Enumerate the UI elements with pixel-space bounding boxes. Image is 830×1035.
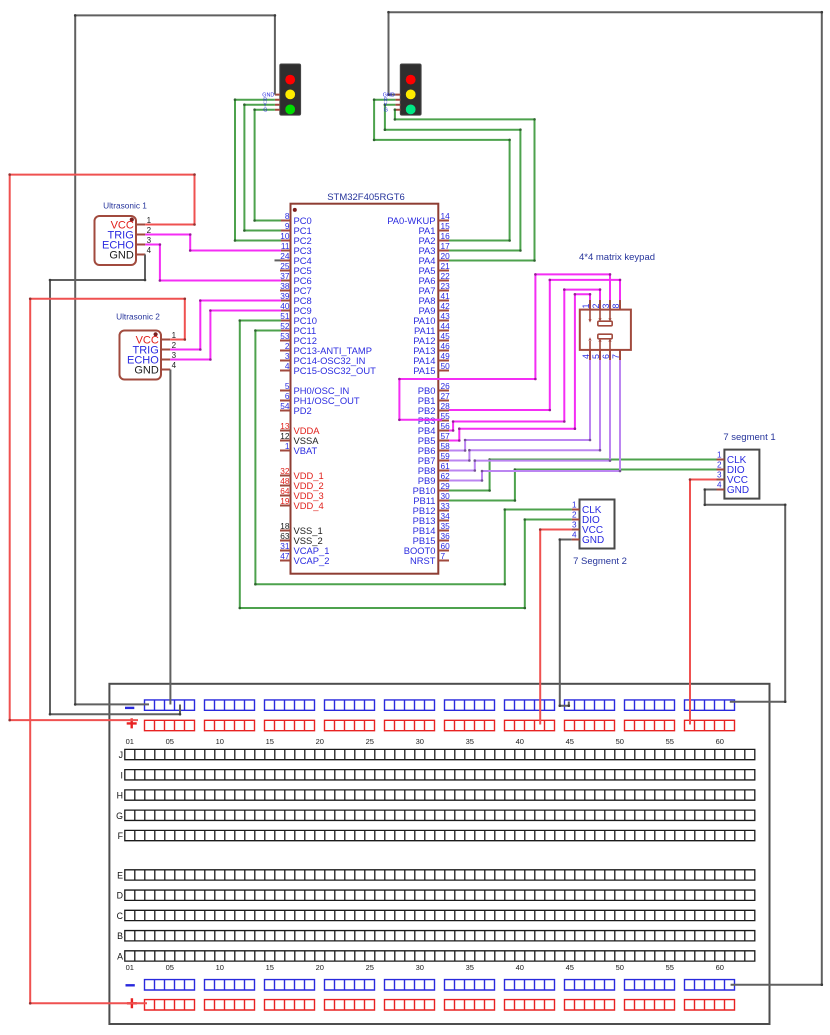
U3 pin 41 PA8: [418, 291, 450, 306]
svg-text:10: 10: [280, 231, 290, 241]
svg-text:GND: GND: [582, 535, 604, 546]
U3 pin 45 PA12: [413, 331, 450, 346]
ultrasonic U1 pin 2 TRIG: [108, 226, 152, 241]
ultrasonic U1 pin 1 VCC: [111, 216, 152, 231]
wire keypad pin6 to U3 PB8: [449, 360, 611, 472]
svg-text:19: 19: [280, 496, 290, 506]
breadboard top blue power rail: [145, 700, 735, 710]
U3 pin 7 NRST: [410, 551, 449, 566]
U3 pin 53 PC12: [280, 331, 317, 346]
7seg S1 pin 4 GND: [717, 481, 750, 496]
wire U2 TRIG to U3 PC8: [170, 299, 281, 351]
7seg S1 pin 1 CLK: [717, 451, 747, 466]
svg-text:44: 44: [441, 321, 451, 331]
svg-text:64: 64: [280, 486, 290, 496]
svg-text:57: 57: [441, 431, 451, 441]
svg-text:PD2: PD2: [294, 405, 312, 416]
svg-text:50: 50: [616, 737, 624, 746]
svg-text:18: 18: [280, 521, 290, 531]
U3 pin 10 PC2: [280, 231, 312, 246]
U3 pin 20 PA4: [418, 251, 450, 266]
U3 pin 23 PA7: [418, 281, 450, 296]
svg-text:45: 45: [566, 737, 574, 746]
svg-text:25: 25: [366, 963, 374, 972]
breadboard top minus symbol: [125, 707, 134, 709]
wire keypad pin4 to U3 PB6: [449, 360, 591, 452]
svg-text:1: 1: [717, 451, 722, 460]
svg-text:E: E: [117, 870, 123, 880]
svg-text:40: 40: [280, 301, 290, 311]
svg-text:6: 6: [285, 391, 290, 401]
svg-text:14: 14: [441, 211, 451, 221]
U3 pin 17 PA3: [418, 241, 450, 256]
U3 pin 54 PD2: [280, 401, 312, 416]
wire U1 ECHO to U3 PC6: [145, 243, 281, 282]
U3 pin 27 PB1: [418, 391, 450, 406]
svg-text:G: G: [116, 811, 123, 821]
svg-text:VCAP_2: VCAP_2: [294, 555, 330, 566]
U3 pin 24 PC4: [280, 251, 312, 266]
svg-text:H: H: [117, 791, 123, 801]
wire U3 PC11 to S2 CLK: [254, 329, 572, 585]
svg-text:GND: GND: [727, 485, 749, 496]
svg-text:15: 15: [266, 963, 274, 972]
7seg S1 pin 2 DIO: [717, 461, 745, 476]
U3 pin 42 PA9: [418, 301, 450, 316]
U3 pin 51 PC10: [280, 311, 317, 326]
svg-text:4: 4: [172, 361, 177, 370]
svg-text:27: 27: [441, 391, 451, 401]
svg-text:PA15: PA15: [413, 365, 435, 376]
svg-text:20: 20: [316, 737, 324, 746]
U3 pin 32 VDD_1: [280, 466, 324, 481]
svg-text:9: 9: [285, 221, 290, 231]
U3 pin 26 PB0: [418, 381, 450, 396]
U3 pin 50 PA15: [413, 361, 450, 376]
svg-text:2: 2: [717, 461, 722, 470]
svg-text:B: B: [117, 931, 123, 941]
wire U2 VCC to bottom red rail: [29, 298, 186, 1005]
ultrasonic sensor U1 body: [95, 216, 137, 265]
svg-text:F: F: [118, 831, 124, 841]
svg-text:49: 49: [441, 351, 451, 361]
wire S2 GND to top blue rail: [559, 538, 572, 707]
U3 pin 3 PC14-OSC32_IN: [280, 351, 365, 366]
wire keypad pin7 to U3 PB9: [449, 360, 621, 482]
breadboard top plus symbol: [127, 718, 137, 728]
svg-text:58: 58: [441, 441, 451, 451]
svg-text:11: 11: [281, 241, 290, 251]
svg-text:46: 46: [441, 341, 451, 351]
7 segment display S2 body: [580, 500, 615, 549]
svg-text:7: 7: [441, 551, 446, 561]
svg-text:35: 35: [441, 521, 451, 531]
wire TL2 GND to bottom blue rail: [387, 11, 823, 986]
svg-text:2: 2: [572, 511, 577, 520]
U3 pin 64 VDD_3: [280, 486, 324, 501]
wire U1 VCC to top red rail: [8, 173, 195, 721]
svg-text:32: 32: [280, 466, 290, 476]
svg-text:52: 52: [280, 321, 290, 331]
svg-text:C: C: [117, 911, 124, 921]
U3 pin 43 PA10: [413, 311, 450, 326]
U3 pin 35 PB14: [413, 521, 451, 536]
wire keypad pin5 to U3 PB7: [449, 360, 601, 462]
wire TL2 R to U3 PA2: [373, 98, 511, 241]
svg-text:40: 40: [516, 963, 524, 972]
svg-text:42: 42: [441, 301, 451, 311]
svg-text:7 Segment 2: 7 Segment 2: [573, 556, 627, 567]
svg-text:34: 34: [441, 511, 451, 521]
wire keypad pin2 to U3 PB4: [449, 288, 601, 432]
U3 pin 25 PC5: [280, 261, 312, 276]
svg-text:Ultrasonic 1: Ultrasonic 1: [103, 201, 147, 211]
svg-text:51: 51: [280, 311, 290, 321]
wire TL1 R to U3 PC2: [234, 98, 281, 241]
7seg S2 pin 1 CLK: [572, 501, 602, 516]
svg-text:36: 36: [441, 531, 451, 541]
svg-text:23: 23: [441, 281, 451, 291]
svg-text:6: 6: [601, 354, 611, 359]
U3 pin 37 PC6: [280, 271, 312, 286]
svg-text:48: 48: [280, 476, 290, 486]
svg-text:30: 30: [441, 491, 451, 501]
svg-text:25: 25: [280, 261, 290, 271]
wire stub at U3 PC4: [275, 259, 281, 261]
U3 pin 19 VDD_4: [280, 496, 324, 511]
svg-text:VBAT: VBAT: [294, 445, 318, 456]
ultrasonic sensor U2 body: [120, 331, 162, 380]
svg-text:STM32F405RGT6: STM32F405RGT6: [327, 192, 405, 203]
svg-text:3: 3: [717, 471, 722, 480]
svg-text:45: 45: [566, 963, 574, 972]
svg-text:35: 35: [466, 737, 474, 746]
ultrasonic U1 pin 4 GND: [109, 246, 151, 261]
U3 pin 16 PA2: [418, 231, 450, 246]
breadboard body: [109, 684, 769, 1024]
U3 pin 15 PA1: [418, 221, 450, 236]
traffic light TL2 pin labels overlay: [383, 93, 395, 114]
keypad bottom pins 4 5 6 7: [581, 350, 621, 361]
U3 pin 44 PA11: [414, 321, 450, 336]
breadboard bottom blue power rail: [145, 980, 735, 990]
U3 pin 55 PB3: [418, 411, 450, 426]
U3 pin 48 VDD_2: [280, 476, 324, 491]
svg-text:GND: GND: [109, 249, 134, 261]
traffic light TL1 pin labels overlay: [262, 93, 274, 114]
svg-text:20: 20: [316, 963, 324, 972]
breadboard row H: [117, 790, 755, 801]
U3 pin 39 PC8: [280, 291, 312, 306]
U3 pin 40 PC9: [280, 301, 312, 316]
U3 pin 14 PA0-WKUP: [387, 211, 450, 226]
breadboard row G: [116, 810, 755, 821]
wire TL1 G to U3 PC0: [253, 108, 281, 221]
svg-text:2: 2: [285, 341, 290, 351]
svg-text:33: 33: [441, 501, 451, 511]
U3 pin 8 PC0: [280, 211, 312, 226]
breadboard bottom minus symbol: [126, 984, 135, 986]
svg-text:D: D: [117, 891, 123, 901]
breadboard row F: [118, 830, 755, 841]
wire TL1 GND to top blue rail: [74, 14, 276, 706]
breadboard bottom plus symbol: [127, 998, 137, 1008]
svg-text:22: 22: [441, 271, 451, 281]
wire keypad pin1 to U3 PB5: [449, 293, 591, 442]
svg-text:I: I: [121, 770, 123, 780]
svg-text:Ultrasonic 2: Ultrasonic 2: [116, 311, 160, 321]
svg-text:10: 10: [216, 963, 224, 972]
U3 pin 29 PB10: [413, 481, 451, 496]
svg-text:40: 40: [516, 737, 524, 746]
7seg S2 pin 3 VCC: [572, 521, 604, 536]
svg-text:05: 05: [166, 737, 174, 746]
svg-text:63: 63: [280, 531, 290, 541]
wire TL2 G to U3 PA4: [394, 108, 536, 261]
U3 pin 6 PH1/OSC_OUT: [280, 391, 360, 406]
svg-text:55: 55: [666, 963, 674, 972]
wire U2 ECHO to U3 PC9: [170, 309, 281, 361]
breadboard bottom red power rail: [145, 1000, 735, 1010]
U3 pin 2 PC13-ANTI_TAMP: [280, 341, 372, 356]
keypad internal switch symbols: [590, 311, 612, 350]
U3 pin 31 VCAP_1: [280, 541, 329, 556]
traffic light TL1 pins (GND R Y G): [275, 95, 280, 110]
breadboard top red power rail: [145, 720, 735, 730]
U3 pin 28 PB2: [418, 401, 450, 416]
U3 pin 59 PB7: [418, 451, 450, 466]
svg-text:56: 56: [441, 421, 451, 431]
svg-text:J: J: [119, 750, 123, 760]
wire keypad pin8 to U3 PB2: [449, 279, 621, 412]
U3 pin 62 PB9: [418, 471, 450, 486]
svg-text:10: 10: [216, 737, 224, 746]
svg-text:21: 21: [441, 261, 451, 271]
breadboard row D: [117, 890, 755, 901]
breadboard row A: [117, 951, 755, 962]
svg-text:7 segment 1: 7 segment 1: [723, 432, 775, 443]
traffic light TL2 pins (GND R Y G): [395, 95, 400, 110]
breadboard bottom column numbers: [126, 963, 724, 972]
svg-text:4: 4: [285, 361, 290, 371]
7seg S2 pin 4 GND: [572, 531, 605, 546]
svg-text:3: 3: [601, 304, 611, 309]
svg-text:47: 47: [280, 551, 290, 561]
svg-text:35: 35: [466, 963, 474, 972]
svg-text:29: 29: [441, 481, 451, 491]
svg-text:53: 53: [280, 331, 290, 341]
U3 pin 30 PB11: [413, 491, 450, 506]
svg-text:45: 45: [441, 331, 451, 341]
svg-text:05: 05: [166, 963, 174, 972]
U3 pin 58 PB6: [418, 441, 450, 456]
U3 pin 4 PC15-OSC32_OUT: [280, 361, 376, 376]
svg-text:39: 39: [280, 291, 290, 301]
svg-text:60: 60: [716, 737, 724, 746]
svg-text:15: 15: [266, 737, 274, 746]
svg-text:26: 26: [441, 381, 451, 391]
U3 pin 12 VSSA: [280, 431, 319, 446]
wire S1 GND to top blue rail: [704, 488, 787, 703]
svg-text:5: 5: [285, 381, 290, 391]
wire U3 PC10 to S2 DIO: [239, 319, 572, 609]
svg-text:1: 1: [285, 441, 290, 451]
wire U3 PB10 to S1 CLK: [449, 458, 717, 492]
U3 pin 5 PH0/OSC_IN: [280, 381, 349, 396]
7seg S2 pin 2 DIO: [572, 511, 600, 526]
svg-text:1: 1: [581, 304, 591, 309]
svg-text:1: 1: [572, 501, 577, 510]
svg-text:61: 61: [441, 461, 451, 471]
svg-text:NRST: NRST: [410, 555, 436, 566]
ultrasonic U1 pin 3 ECHO: [102, 236, 152, 251]
svg-text:01: 01: [126, 963, 134, 972]
U3 pin 52 PC11: [280, 321, 316, 336]
svg-text:38: 38: [280, 281, 290, 291]
traffic light TL2 body: [400, 64, 421, 115]
breadboard row E: [117, 870, 755, 881]
U3 pin 33 PB12: [413, 501, 451, 516]
svg-text:50: 50: [616, 963, 624, 972]
7seg S1 pin 3 VCC: [717, 471, 749, 486]
wire U2 GND to top blue rail: [169, 370, 171, 705]
svg-text:60: 60: [441, 541, 451, 551]
svg-text:4: 4: [717, 481, 722, 490]
svg-text:31: 31: [280, 541, 290, 551]
U3 pin 11 PC3: [280, 241, 312, 256]
svg-text:62: 62: [441, 471, 451, 481]
svg-text:59: 59: [441, 451, 451, 461]
svg-text:37: 37: [280, 271, 290, 281]
svg-text:25: 25: [366, 737, 374, 746]
U3 pin 47 VCAP_2: [280, 551, 329, 566]
wire U1 GND to top blue rail: [49, 255, 182, 716]
U3 pin 1 VBAT: [280, 441, 318, 456]
U3 pin 46 PA13: [413, 341, 450, 356]
svg-text:GND: GND: [134, 364, 159, 376]
U3 pin 22 PA6: [418, 271, 450, 286]
ultrasonic U2 pin 1 VCC: [136, 331, 177, 346]
svg-text:54: 54: [280, 401, 290, 411]
U3 pin 60 BOOT0: [404, 541, 450, 556]
svg-text:G: G: [384, 108, 388, 114]
ultrasonic U2 pin 3 ECHO: [127, 351, 177, 366]
U3 pin 56 PB4: [418, 421, 450, 436]
U3 pin 63 VSS_2: [280, 531, 323, 546]
svg-text:3: 3: [572, 521, 577, 530]
svg-text:16: 16: [441, 231, 451, 241]
U3 pin 18 VSS_1: [280, 521, 323, 536]
wire S2 VCC to top red rail: [539, 528, 572, 724]
U3 pin 36 PB15: [413, 531, 451, 546]
svg-text:01: 01: [126, 737, 134, 746]
svg-text:15: 15: [441, 221, 451, 231]
svg-text:20: 20: [441, 251, 451, 261]
breadboard top column numbers: [126, 737, 724, 746]
svg-text:55: 55: [666, 737, 674, 746]
svg-text:50: 50: [441, 361, 451, 371]
U3 pin 34 PB13: [413, 511, 451, 526]
wire U3 PB11 to S1 DIO: [449, 468, 717, 502]
svg-text:28: 28: [441, 401, 451, 411]
wire S1 VCC to top red rail: [689, 478, 717, 724]
svg-text:60: 60: [716, 963, 724, 972]
keypad top pins 1 2 3 8: [581, 300, 621, 311]
wire TL2 Y to U3 PA3: [384, 103, 522, 251]
svg-text:A: A: [117, 951, 123, 961]
svg-text:7: 7: [611, 354, 621, 359]
svg-text:G: G: [263, 108, 267, 114]
breadboard row B: [117, 931, 755, 942]
svg-text:5: 5: [591, 354, 601, 359]
wire U1 TRIG to U3 PC3: [145, 233, 281, 252]
svg-text:8: 8: [285, 211, 290, 221]
U3 pin 49 PA14: [413, 351, 450, 366]
traffic light TL1 body: [280, 64, 301, 115]
microcontroller U3 body: [291, 204, 439, 574]
svg-text:30: 30: [416, 963, 424, 972]
wire keypad pin3 to U3 PB3: [398, 273, 611, 421]
ultrasonic U2 pin 4 GND: [134, 361, 176, 376]
svg-text:3: 3: [285, 351, 290, 361]
svg-text:13: 13: [280, 421, 290, 431]
svg-text:4: 4: [572, 531, 577, 540]
wire TL1 Y to U3 PC1: [243, 103, 281, 231]
U3 pin 57 PB5: [418, 431, 450, 446]
svg-text:30: 30: [416, 737, 424, 746]
svg-text:12: 12: [280, 431, 290, 441]
svg-text:43: 43: [441, 311, 451, 321]
svg-text:8: 8: [611, 304, 621, 309]
U3 pin 38 PC7: [280, 281, 312, 296]
svg-text:VDD_4: VDD_4: [294, 500, 324, 511]
svg-text:PC15-OSC32_OUT: PC15-OSC32_OUT: [294, 365, 377, 376]
breadboard row J: [119, 749, 755, 760]
svg-text:17: 17: [441, 241, 451, 251]
keypad K1 body: [580, 310, 631, 350]
breadboard row C: [117, 910, 755, 921]
svg-text:4*4 matrix keypad: 4*4 matrix keypad: [579, 252, 655, 263]
ultrasonic U2 pin 2 TRIG: [133, 341, 177, 356]
svg-text:24: 24: [280, 251, 290, 261]
svg-text:4: 4: [147, 246, 152, 255]
svg-text:41: 41: [441, 291, 451, 301]
U3 pin 61 PB8: [418, 461, 450, 476]
U3 pin 9 PC1: [280, 221, 312, 236]
U3 pin 13 VDDA: [280, 421, 320, 436]
breadboard row I: [121, 770, 755, 781]
svg-text:4: 4: [581, 354, 591, 359]
svg-text:2: 2: [591, 304, 601, 309]
7 segment display S1 body: [724, 450, 759, 499]
U3 pin 21 PA5: [418, 261, 450, 276]
